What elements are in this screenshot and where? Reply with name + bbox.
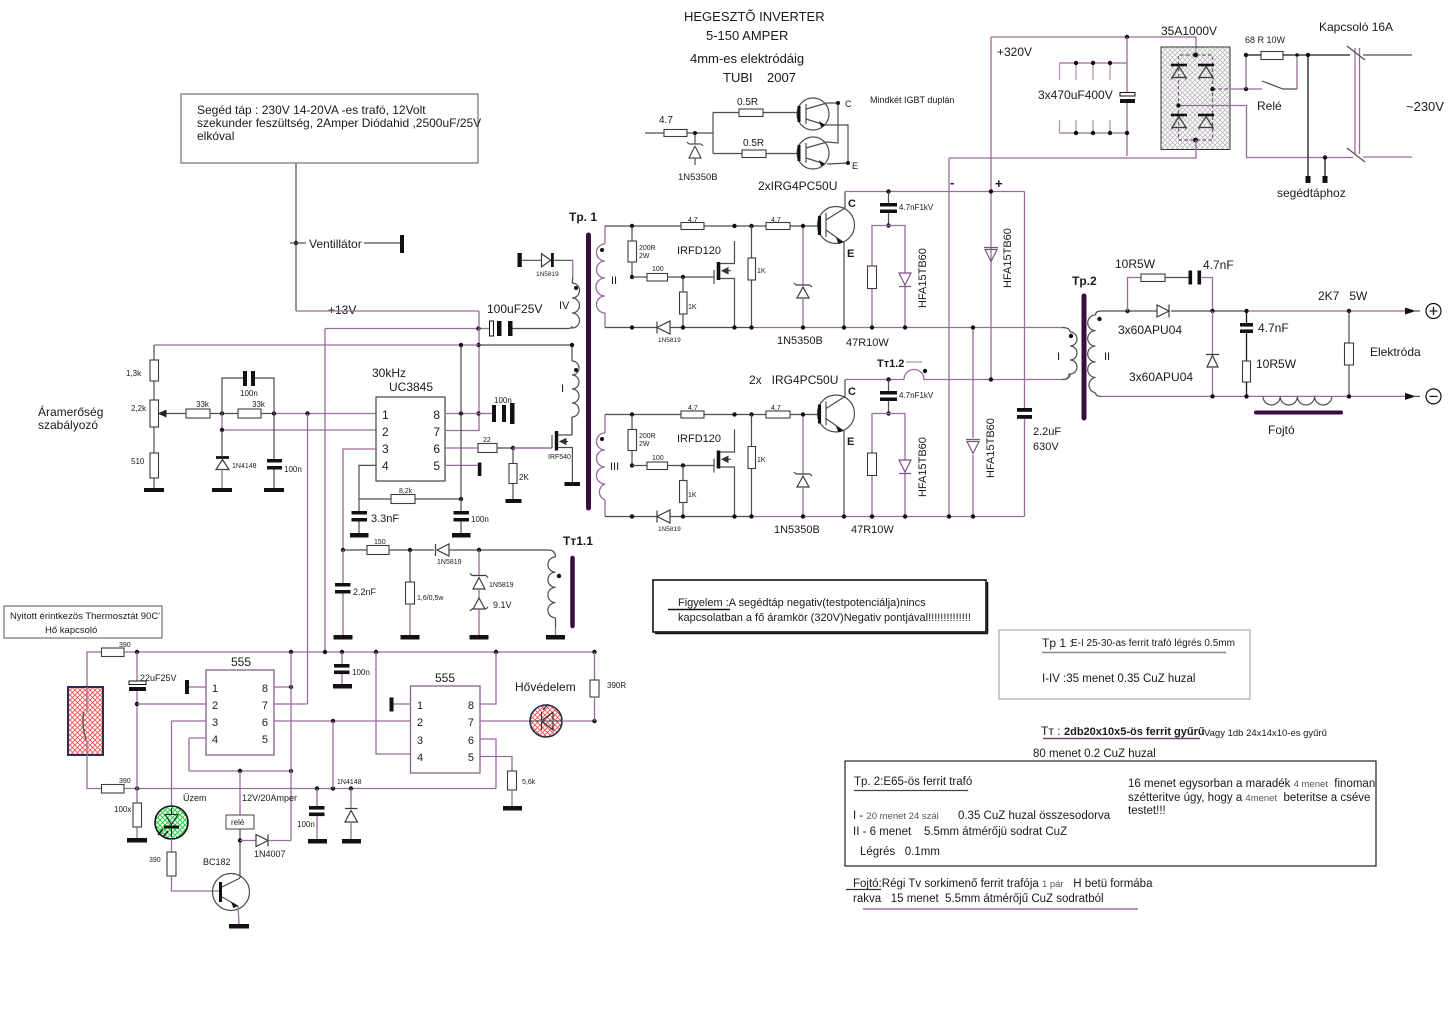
svg-text:100n: 100n [284, 465, 302, 474]
svg-text:1N5819: 1N5819 [658, 337, 681, 344]
svg-text:I-IV :35 menet 0.35 CuZ huzal: I-IV :35 menet 0.35 CuZ huzal [1042, 673, 1195, 685]
svg-text:Tр.2: Tр.2 [1072, 274, 1097, 288]
thermostat arm [86, 687, 88, 755]
capacitor bank top rail [1060, 62, 1128, 64]
svg-text:1,6/0,5w: 1,6/0,5w [417, 595, 444, 602]
svg-text:1N5350B: 1N5350B [678, 172, 718, 183]
svg-text:10R5W: 10R5W [1115, 257, 1156, 271]
svg-text:Relé: Relé [1257, 99, 1282, 113]
mosfet IRFD120 upper [713, 270, 715, 284]
ground IRF540 [565, 482, 581, 486]
wire driver split [712, 113, 714, 154]
node snubber cap top lower [886, 377, 890, 381]
wire LED to base [172, 876, 220, 891]
pin segédtáphoz 1 [1307, 55, 1309, 177]
polarity dot II [600, 248, 604, 252]
node 33k junction [220, 411, 224, 415]
diode HFA15TB60 upper freewheel [984, 248, 998, 262]
bridge internal dashed wiring [1179, 55, 1231, 140]
svg-text:2K: 2K [519, 473, 529, 482]
svg-text:4: 4 [212, 734, 218, 746]
zener 1N5350B upper [802, 226, 804, 328]
svg-text:6: 6 [433, 442, 440, 456]
svg-text:Mindkét IGBT duplán: Mindkét IGBT duplán [870, 95, 954, 105]
node bottom 1K lower [681, 514, 685, 518]
switch Kapcsoló poles [1355, 48, 1360, 154]
svg-text:szekunder feszültség, 2Amper D: szekunder feszültség, 2Amper Diódahid ,2… [197, 116, 481, 130]
output arrow plus [1405, 308, 1416, 315]
bridge diode BR [1198, 114, 1214, 117]
node 100uF left [476, 326, 480, 330]
svg-text:+: + [995, 176, 1003, 191]
svg-text:Üzem: Üzem [183, 793, 207, 803]
resistor 200R 2W lower [628, 430, 637, 451]
svg-text:1N4148: 1N4148 [232, 463, 257, 470]
wire 13V to bottom rail vertical [324, 329, 326, 653]
IC 555 first [206, 670, 274, 755]
transistor driver Q1 [797, 98, 829, 130]
svg-text:8: 8 [468, 700, 474, 712]
svg-text:HFA15TB60: HFA15TB60 [1002, 228, 1014, 288]
zener 1N5350B lower [802, 415, 804, 517]
resistor 4.7 driver [645, 132, 664, 134]
svg-text:Tp. 1: Tp. 1 [569, 210, 597, 224]
note box Segéd táp [181, 94, 478, 163]
svg-text:5: 5 [262, 734, 268, 746]
capacitor C-bank stubs bottom [1060, 120, 1111, 133]
node 68R left [1244, 87, 1248, 91]
resistor 33k second [238, 409, 261, 418]
svg-text:IRFD120: IRFD120 [677, 433, 721, 445]
switch diagonal bottom [1347, 148, 1365, 162]
svg-text:1K: 1K [757, 268, 766, 275]
node winding I top [570, 343, 574, 347]
svg-text:100n: 100n [352, 668, 370, 677]
polarity dot Тт1.1 [557, 574, 561, 578]
diode 1N5819 vertical [478, 550, 480, 575]
node relay drop [238, 769, 242, 773]
svg-text:Tp. 2:E65-ös ferrit trafó: Tp. 2:E65-ös ferrit trafó [854, 776, 972, 788]
node freewheel bottom [1210, 394, 1214, 398]
svg-text:1N4148: 1N4148 [337, 779, 362, 786]
node snubber left top [1125, 309, 1129, 313]
resistor 100 lower [632, 465, 647, 467]
node 1N4007 anode [238, 838, 242, 842]
svg-text:2x IRG4PC50U: 2x IRG4PC50U [749, 373, 838, 387]
potentiometer 2,2k [150, 400, 159, 427]
capacitor bank bottom rail [1060, 132, 1128, 134]
transistor BC182 [213, 874, 250, 911]
svg-text:100n: 100n [297, 820, 315, 829]
resistor 68R [1246, 54, 1261, 56]
svg-text:szétteritve úgy, hogy a 4menet: szétteritve úgy, hogy a 4menet beteritse… [1128, 792, 1370, 804]
svg-text:2.2uF: 2.2uF [1033, 426, 1061, 438]
resistor 1K igbt-gate lower [748, 447, 756, 469]
wire pin4 [359, 465, 376, 499]
svg-text:555: 555 [435, 671, 455, 685]
winding I primary [572, 345, 579, 435]
svg-text:100n: 100n [240, 389, 258, 398]
svg-text:4.7: 4.7 [659, 115, 673, 126]
node 100 res left lower [630, 463, 634, 467]
wire pin7 [445, 430, 479, 432]
wire IGBT collector lower [844, 380, 846, 397]
relay coil box [239, 771, 241, 815]
node pin6 junction [331, 719, 335, 723]
wire mains top [1363, 54, 1412, 56]
node rail-137 [135, 650, 139, 654]
svg-text:2: 2 [417, 717, 423, 729]
wire relay feed from bridge [1230, 88, 1263, 90]
wire pin5 [445, 464, 478, 466]
svg-text:Hő kapcsoló: Hő kapcsoló [45, 625, 97, 636]
svg-text:4.7nF1kV: 4.7nF1kV [899, 203, 934, 212]
wire lower cell bottom rail [605, 516, 752, 518]
svg-text:Légrés 0.1mm: Légrés 0.1mm [860, 846, 940, 858]
svg-text:kapcsolatban a fő áramkör (320: kapcsolatban a fő áramkör (320V)Negativ … [678, 612, 971, 624]
capacitor 100uF25V [479, 328, 490, 330]
svg-text:100n: 100n [471, 515, 489, 524]
svg-text:Tт1.1: Tт1.1 [563, 534, 593, 548]
svg-text:+13V: +13V [328, 303, 356, 317]
svg-text:HEGESZTÕ INVERTER: HEGESZTÕ INVERTER [684, 9, 825, 24]
svg-text:Fojtó:Régi Tv sorkimenő ferrit: Fojtó:Régi Tv sorkimenő ferrit trafója 1… [853, 878, 1153, 890]
svg-text:HFA15TB60: HFA15TB60 [917, 437, 929, 497]
resistor 100k [136, 789, 138, 804]
svg-text:I: I [561, 383, 564, 395]
wire 555b pin4 drop [376, 652, 411, 754]
terminal bar pin5 [478, 463, 482, 477]
node gate junction lower [681, 463, 685, 467]
bridge rectifier 35A1000V body [1161, 47, 1230, 150]
svg-text:35A1000V: 35A1000V [1161, 24, 1217, 38]
svg-text:4.7nF1kV: 4.7nF1kV [899, 391, 934, 400]
ground 1N4148 [212, 488, 232, 492]
wire 555b pin8 [480, 652, 496, 704]
wire secondary bottom rail [1101, 395, 1405, 397]
svg-text:II: II [1104, 351, 1110, 363]
bridge node relay tap [1210, 87, 1214, 91]
wire main cap vertical [1126, 37, 1128, 92]
svg-text:200R: 200R [639, 433, 656, 440]
diode 3x60APU04 series [1157, 305, 1169, 318]
svg-text:1: 1 [212, 683, 218, 695]
svg-text:200R: 200R [639, 245, 656, 252]
svg-text:C: C [848, 386, 856, 398]
wire +13V horizontal [296, 310, 479, 312]
wire mains bottom [1363, 156, 1412, 158]
svg-text:16 menet egysorban a maradék 4: 16 menet egysorban a maradék 4 menet fin… [1128, 778, 1375, 790]
winding I Tp2 [1062, 328, 1077, 380]
svg-text:szabályozó: szabályozó [38, 418, 98, 432]
svg-text:+320V: +320V [997, 45, 1032, 59]
node pin4-291 [289, 769, 293, 773]
svg-text:2: 2 [212, 700, 218, 712]
svg-text:150: 150 [374, 539, 386, 546]
LED Üzem [155, 806, 188, 839]
wire 555a pin6 [274, 720, 411, 722]
node ventillator tap [294, 241, 298, 245]
node supply-414 [476, 411, 480, 415]
svg-text:1: 1 [417, 700, 423, 712]
svg-text:Hővédelem: Hővédelem [515, 680, 576, 694]
node 390R bottom [592, 719, 596, 723]
wire rail345 right segment [478, 344, 572, 346]
svg-text:30kHz: 30kHz [372, 366, 406, 380]
svg-text:390: 390 [149, 857, 161, 864]
polarity dot III [600, 437, 604, 441]
node 200R top lower [630, 412, 634, 416]
svg-text:8: 8 [433, 408, 440, 422]
wire upper cell top rail [605, 225, 632, 227]
node 150 left [341, 548, 345, 552]
bridge diode BL [1171, 114, 1187, 117]
transformer Тт1.1 winding [548, 557, 556, 628]
resistor 100 upper [632, 276, 647, 278]
terminal plus circle [1426, 304, 1441, 319]
svg-text:BC182: BC182 [203, 857, 231, 867]
wire to fan terminal [364, 242, 400, 244]
capacitor 100n at pin4 [460, 499, 462, 511]
svg-text:4mm-es elektródáig: 4mm-es elektródáig [690, 51, 804, 66]
node bottom mosfet source lower [732, 514, 736, 518]
node bottom 200R lower [630, 514, 634, 518]
mosfet IRF540 [551, 435, 553, 448]
resistor 22 [478, 444, 497, 453]
svg-text:III: III [610, 461, 619, 473]
terminal bar 555b pin1 [390, 698, 394, 712]
diode 1N4148 bottom [350, 789, 352, 809]
wire vcc rail 652 [124, 651, 595, 653]
svg-text:630V: 630V [1033, 441, 1059, 453]
svg-text:IV: IV [559, 300, 570, 312]
wire 555a pin4 [189, 738, 291, 771]
svg-text:4.7nF: 4.7nF [1203, 258, 1234, 272]
node trail-333 [331, 786, 335, 790]
svg-text:2db20x10x5-ös ferrit gyűrű: 2db20x10x5-ös ferrit gyűrű [1064, 726, 1205, 738]
capacitor 100n at rail [341, 652, 343, 664]
wire IGBT emitter [843, 242, 845, 328]
wire IGBT collector [844, 192, 846, 209]
svg-text:2K7 5W: 2K7 5W [1318, 289, 1368, 303]
diode 3x60APU04 freewheel [1212, 311, 1214, 354]
core bar Fojtó [1256, 411, 1341, 415]
wire pin6 to trigger rail [332, 721, 334, 789]
wire vcc drop x461 [460, 345, 462, 414]
capacitor 100n at pin8 [479, 413, 493, 415]
node plus-collector junction [989, 189, 993, 193]
pin segédtáphoz 2 [1324, 158, 1326, 178]
wire 555b pin6 [480, 739, 496, 789]
switch diagonal top [1347, 46, 1365, 60]
resistor 1K gate pulldown lower [680, 481, 688, 503]
resistor 8,2k [359, 498, 391, 500]
wire 555b pin7 to LED [480, 720, 530, 722]
resistor Elektróda bleed [1347, 309, 1351, 313]
node snubber cap top [886, 189, 890, 193]
svg-text:I: I [1057, 351, 1060, 363]
wire +320V rail [991, 37, 1196, 55]
winding II [596, 226, 605, 328]
resistor 510 [150, 453, 159, 478]
svg-text:Nyitott érintkezös Thermosztát: Nyitott érintkezös Thermosztát 90C' [10, 611, 160, 622]
resistor 390 top [102, 648, 125, 657]
svg-text:1: 1 [382, 408, 389, 422]
node 1,6 ohm top [408, 548, 412, 552]
transistor driver Q2 [797, 137, 829, 169]
wire 555a pin7 up [274, 703, 308, 705]
wire divider chain [153, 345, 155, 488]
node plus rail bottom [989, 377, 993, 381]
svg-text:3: 3 [382, 442, 389, 456]
capacitor 100n bottom [316, 789, 318, 807]
wire pin6 [445, 447, 478, 449]
svg-text:Tт :: Tт : [1041, 724, 1061, 738]
wire + rail vertical [990, 37, 992, 380]
bridge aux line [1179, 105, 1231, 107]
capacitor 4.7nF1kV upper [888, 192, 890, 204]
terminal minus circle [1426, 389, 1441, 404]
svg-text:6: 6 [468, 735, 474, 747]
node 200R top [630, 224, 634, 228]
svg-text:100: 100 [652, 266, 664, 273]
node after 33k2 [272, 411, 276, 415]
svg-text:2W: 2W [639, 253, 650, 260]
svg-text:0.5R: 0.5R [743, 138, 764, 149]
relay switch arm [1262, 81, 1297, 89]
svg-text:5,6k: 5,6k [522, 779, 536, 786]
node minus rail bottom [947, 514, 951, 518]
diode 1N4148 [221, 430, 223, 456]
node snubber mid upper [886, 223, 890, 227]
resistor 200R 2W upper [628, 241, 637, 262]
node rail-376 [374, 650, 378, 654]
node pin1 junction 555 feed [305, 411, 309, 415]
wire blocking cap vertical [1024, 192, 1026, 517]
svg-text:1N5350B: 1N5350B [777, 335, 823, 347]
snubber RC lower [872, 414, 905, 517]
svg-text:Vagy 1db 24x14x10-es gyűrű: Vagy 1db 24x14x10-es gyűrű [1204, 728, 1327, 739]
svg-text:22: 22 [483, 437, 491, 444]
resistor 1K gate pulldown upper [680, 292, 688, 314]
node mosfet drain top lower [732, 412, 736, 416]
svg-text:HFA15TB60: HFA15TB60 [917, 248, 929, 308]
svg-text:1N5819: 1N5819 [437, 559, 462, 566]
ground divider [144, 488, 164, 492]
wire wiper to 33k [167, 413, 186, 415]
bridge node aux tap [1176, 103, 1180, 107]
svg-text:7: 7 [262, 700, 268, 712]
svg-text:Tp 1 :: Tp 1 : [1042, 636, 1073, 650]
svg-text:2.2nF: 2.2nF [353, 587, 377, 597]
node gate irf540 [511, 446, 515, 450]
capacitor electrolytic plates on main line [1120, 93, 1135, 97]
resistor 2K [512, 448, 514, 464]
transformer Tp2 core [1082, 296, 1087, 418]
resistor 1,6/0,5w [409, 550, 411, 582]
svg-text:IRFD120: IRFD120 [677, 245, 721, 257]
svg-text:100uF25V: 100uF25V [487, 302, 542, 316]
IGBT upper [818, 207, 855, 244]
svg-text:8: 8 [262, 683, 268, 695]
svg-text:IRF540: IRF540 [548, 454, 571, 461]
svg-text:rakva 15 menet 5.5mm átmérő: rakva 15 menet 5.5mm átmérőjű CuZ sodrat… [853, 893, 1104, 905]
svg-text:3x60APU04: 3x60APU04 [1129, 370, 1193, 384]
wire secondary top rail [1101, 310, 1157, 312]
node rail-291 [289, 650, 293, 654]
wire thermostat bottom [87, 755, 102, 789]
svg-text:Fojtó: Fojtó [1268, 423, 1295, 437]
svg-text:-: - [950, 175, 954, 190]
ground 100n left [264, 488, 284, 492]
node rect diode top [1210, 309, 1214, 313]
svg-text:1N4007: 1N4007 [254, 849, 286, 859]
wire 555a pin3 to LED [172, 721, 207, 806]
svg-text:10R5W: 10R5W [1256, 357, 1297, 371]
svg-text:8,2k: 8,2k [399, 488, 413, 495]
ground 2K [506, 499, 522, 503]
svg-text:E-I 25-30-as ferrit trafó lé: E-I 25-30-as ferrit trafó légrés 0.5mm [1071, 638, 1235, 649]
resistor 150 [343, 549, 367, 551]
bridge node bottom [1193, 138, 1198, 143]
svg-text:Figyelem :A segédtáp negativ(t: Figyelem :A segédtáp negativ(testpotenci… [678, 597, 926, 609]
svg-text:47R10W: 47R10W [851, 524, 894, 536]
fan terminal bar [400, 235, 404, 253]
zener 9.1V [470, 598, 488, 611]
node pin4 rc [459, 497, 463, 501]
capacitor 100n over 33k [222, 378, 274, 414]
bridge node top [1193, 53, 1198, 58]
node bottom 1K [681, 325, 685, 329]
zener 1N5350B driver [687, 135, 703, 165]
svg-text:9.1V: 9.1V [493, 600, 512, 610]
svg-text:3x60APU04: 3x60APU04 [1118, 323, 1182, 337]
svg-text:100x: 100x [114, 805, 131, 814]
resistor 390 bottom [102, 785, 125, 794]
winding IV [572, 277, 580, 329]
node cap bank top tie [1125, 35, 1129, 39]
node rail-594 [592, 650, 596, 654]
polarity dot Тт1.2 [923, 369, 927, 373]
wire 555a pin8 [274, 686, 291, 688]
wire lower collector rail with loop [845, 370, 1069, 380]
svg-text:2W: 2W [639, 441, 650, 448]
node 68R top [1244, 53, 1248, 57]
svg-text:Elektróda: Elektróda [1370, 345, 1421, 359]
node bottom 200R [630, 325, 634, 329]
wire rail345 purple [154, 344, 478, 346]
label Ventillátor [290, 242, 306, 244]
svg-text:7: 7 [468, 717, 474, 729]
wire vcc drop 291 [290, 652, 292, 841]
svg-text:390R: 390R [607, 681, 626, 690]
node 1K gate-res top [749, 224, 753, 228]
svg-text:80 menet 0.2 CuZ huzal: 80 menet 0.2 CuZ huzal [1033, 748, 1156, 760]
wire gate purple [513, 447, 552, 449]
svg-text:33k: 33k [196, 400, 210, 409]
wire relay contact up [1296, 57, 1298, 89]
node rail-496 [494, 650, 498, 654]
dash after Тт1.2 [906, 361, 922, 363]
wire upper collector rail [845, 191, 1025, 193]
svg-text:1N5350B: 1N5350B [774, 524, 820, 536]
node driver input [693, 131, 697, 135]
diode 1N5819 tt [436, 544, 450, 556]
svg-text:2,2k: 2,2k [131, 404, 147, 413]
svg-text:1N5819: 1N5819 [536, 271, 559, 278]
node gate junction upper [681, 275, 685, 279]
svg-text:Segéd táp : 230V 14-20VA -es t: Segéd táp : 230V 14-20VA -es trafó, 12Vo… [197, 103, 426, 117]
